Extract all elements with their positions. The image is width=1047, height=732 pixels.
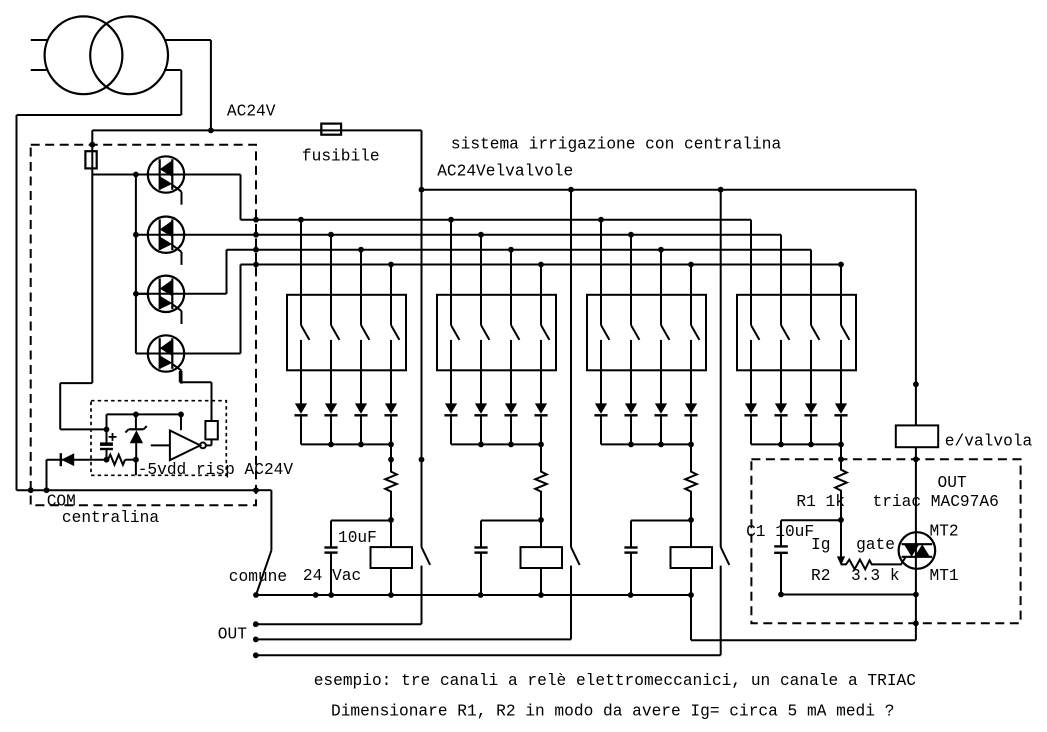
svg-text:fusibile: fusibile bbox=[302, 147, 380, 165]
svg-text:AC24V: AC24V bbox=[227, 103, 276, 121]
svg-text:Ig: Ig bbox=[811, 536, 830, 554]
svg-text:3.3 k: 3.3 k bbox=[851, 567, 900, 585]
svg-text:AC24Velvalvole: AC24Velvalvole bbox=[437, 163, 573, 181]
svg-text:24 Vac: 24 Vac bbox=[303, 567, 361, 585]
svg-text:R1 1k: R1 1k bbox=[796, 493, 845, 511]
svg-text:-5vdd risp AC24V: -5vdd risp AC24V bbox=[138, 461, 294, 479]
svg-text:e/valvola: e/valvola bbox=[945, 433, 1033, 451]
svg-text:R2: R2 bbox=[811, 567, 830, 585]
svg-text:OUT: OUT bbox=[218, 626, 247, 644]
svg-text:gate: gate bbox=[856, 536, 895, 554]
svg-text:esempio: tre canali a relè ele: esempio: tre canali a relè elettromeccan… bbox=[314, 672, 917, 690]
svg-text:sistema irrigazione con centra: sistema irrigazione con centralina bbox=[451, 135, 782, 153]
svg-text:C1 10uF: C1 10uF bbox=[746, 523, 814, 541]
svg-text:triac MAC97A6: triac MAC97A6 bbox=[873, 493, 999, 511]
svg-text:10uF: 10uF bbox=[338, 529, 377, 547]
svg-text:centralina: centralina bbox=[62, 509, 159, 527]
svg-text:MT1: MT1 bbox=[930, 567, 959, 585]
svg-text:MT2: MT2 bbox=[930, 523, 959, 541]
svg-text:OUT: OUT bbox=[938, 474, 967, 492]
svg-text:comune: comune bbox=[229, 568, 287, 586]
svg-text:COM: COM bbox=[47, 493, 76, 511]
svg-text:Dimensionare R1, R2 in modo da: Dimensionare R1, R2 in modo da avere Ig=… bbox=[331, 702, 894, 720]
